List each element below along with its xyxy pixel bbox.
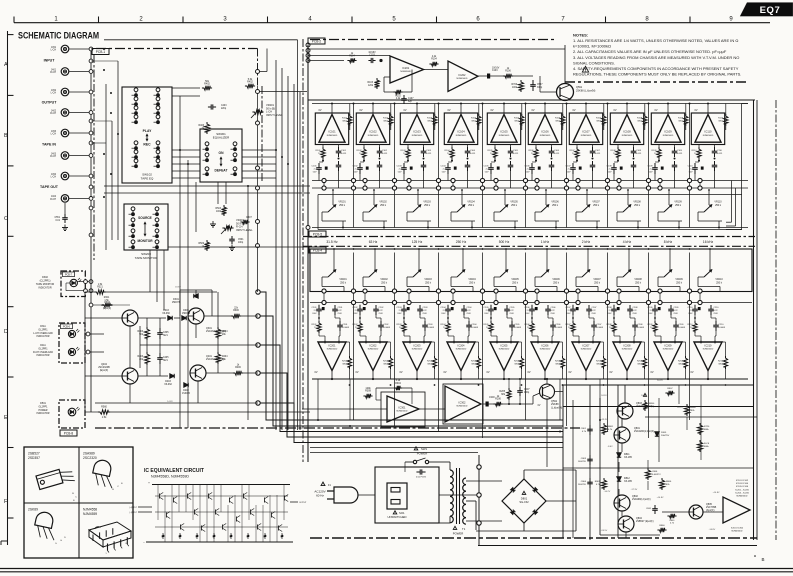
svg-text:EQ7: EQ7 <box>760 5 781 16</box>
svg-text:C551: C551 <box>55 217 61 219</box>
svg-text:NJM4560D: NJM4560D <box>412 135 423 137</box>
svg-text:C501: C501 <box>238 239 244 241</box>
svg-text:R110: R110 <box>718 118 724 120</box>
svg-text:0V: 0V <box>527 371 530 374</box>
svg-text:/50V: /50V <box>592 313 597 315</box>
svg-text:-24.5V: -24.5V <box>601 530 608 532</box>
svg-text:R101: R101 <box>316 150 322 152</box>
svg-text:C201: C201 <box>343 324 349 326</box>
svg-text:IC206: IC206 <box>542 343 549 347</box>
svg-text:1.5k: 1.5k <box>102 416 107 419</box>
svg-text:68k: 68k <box>501 394 506 396</box>
svg-text:6: 6 <box>476 17 480 23</box>
svg-text:J404: J404 <box>51 196 57 198</box>
svg-text:NJM4560D: NJM4560D <box>412 349 423 351</box>
svg-text:C101: C101 <box>341 150 347 152</box>
svg-text:/50V: /50V <box>674 313 679 315</box>
svg-text:R110: R110 <box>692 150 698 152</box>
svg-text:C108: C108 <box>607 166 613 168</box>
svg-text:/50V: /50V <box>338 313 343 315</box>
svg-text:NJM4560D: NJM4560D <box>368 135 379 137</box>
svg-text:NOTES:: NOTES: <box>573 33 588 38</box>
svg-text:250 k: 250 k <box>340 281 347 284</box>
svg-text:R205: R205 <box>514 361 520 363</box>
svg-text:250 k: 250 k <box>594 281 601 284</box>
svg-text:NJM4560D: NJM4560D <box>737 496 748 498</box>
svg-text:C210: C210 <box>714 307 720 309</box>
svg-text:2SC2320: 2SC2320 <box>83 456 97 460</box>
svg-text:E: E <box>121 483 123 485</box>
svg-text:0V: 0V <box>694 109 697 112</box>
svg-text:L-CH: L-CH <box>51 134 57 136</box>
svg-text:0.015: 0.015 <box>717 153 723 155</box>
svg-text:R103: R103 <box>427 118 433 120</box>
svg-text:R807: R807 <box>667 388 673 390</box>
svg-text:4.7k: 4.7k <box>608 429 613 431</box>
svg-text:R103: R103 <box>401 150 407 152</box>
svg-text:R309: R309 <box>365 390 371 393</box>
svg-text:680k: 680k <box>704 446 710 448</box>
svg-text:ON: ON <box>219 151 225 155</box>
svg-text:50V: 50V <box>398 172 402 174</box>
svg-text:R203: R203 <box>427 361 433 363</box>
svg-text:(−)INPUT: (−)INPUT <box>129 512 138 514</box>
svg-text:R303: R303 <box>138 331 144 333</box>
svg-text:R104: R104 <box>445 150 451 152</box>
svg-text:R205: R205 <box>499 391 505 393</box>
svg-text:D801: D801 <box>521 497 528 501</box>
svg-text:R210: R210 <box>688 324 694 326</box>
svg-text:0.22: 0.22 <box>510 310 515 312</box>
svg-text:E: E <box>73 500 75 502</box>
svg-text:R867: R867 <box>691 407 697 409</box>
svg-text:0V: 0V <box>318 109 321 112</box>
svg-text:R103: R103 <box>368 82 374 84</box>
svg-text:0V: 0V <box>609 371 612 374</box>
svg-text:SIGNAL CONDITIONS.: SIGNAL CONDITIONS. <box>573 60 615 65</box>
svg-text:0V: 0V <box>486 371 489 374</box>
svg-text:0.22: 0.22 <box>338 310 343 312</box>
svg-text:OUTPUT: OUTPUT <box>299 502 307 504</box>
svg-text:50V: 50V <box>485 172 489 174</box>
svg-text:IC205: IC205 <box>501 343 508 347</box>
svg-text:16.5V: 16.5V <box>641 395 647 397</box>
svg-text:R321: R321 <box>97 287 103 289</box>
svg-text:SCHEMATIC DIAGRAM: SCHEMATIC DIAGRAM <box>18 31 99 41</box>
svg-text:NJM4560D: NJM4560D <box>499 349 510 351</box>
svg-text:R-CH: R-CH <box>50 199 56 201</box>
svg-text:0V: 0V <box>538 405 541 407</box>
svg-text:NJM4560D: NJM4560D <box>499 135 510 137</box>
svg-text:/50V: /50V <box>467 313 472 315</box>
svg-text:R105: R105 <box>488 150 494 152</box>
svg-text:R503: R503 <box>216 208 222 210</box>
svg-text:82p: 82p <box>408 101 413 103</box>
svg-text:DEFEAT: DEFEAT <box>215 169 228 173</box>
svg-text:R306: R306 <box>233 310 239 312</box>
svg-text:2SB527: 2SB527 <box>28 452 40 456</box>
svg-text:2SB527 (E)or(F): 2SB527 (E)or(F) <box>636 520 654 523</box>
svg-text:R204: R204 <box>471 361 477 363</box>
svg-text:−: − <box>143 540 145 544</box>
svg-text:3: 3 <box>223 17 227 23</box>
svg-text:10/16V: 10/16V <box>492 67 500 69</box>
svg-text:PCB-1: PCB-1 <box>96 50 106 54</box>
svg-text:D305: D305 <box>183 310 189 312</box>
svg-text:0V: 0V <box>572 109 575 112</box>
svg-text:-8.6V: -8.6V <box>607 446 613 448</box>
svg-text:R106: R106 <box>529 150 535 152</box>
svg-text:R207: R207 <box>566 324 572 326</box>
svg-text:0.015: 0.015 <box>513 153 519 155</box>
svg-text:18.8V: 18.8V <box>175 287 181 289</box>
svg-text:R209: R209 <box>648 324 654 326</box>
svg-text:C203: C203 <box>397 307 403 309</box>
svg-text:XZ-060: XZ-060 <box>162 313 170 315</box>
svg-text:C202: C202 <box>353 307 359 309</box>
svg-text:2: 2 <box>139 17 143 23</box>
svg-text:50V: 50V <box>649 172 653 174</box>
svg-text:250 k: 250 k <box>716 281 723 284</box>
svg-text:T1: T1 <box>462 527 466 531</box>
svg-text:PCB-8: PCB-8 <box>64 432 74 436</box>
svg-text:!: ! <box>585 67 586 72</box>
svg-text:2SA999(1,b)or(F): 2SA999(1,b)or(F) <box>632 498 651 501</box>
svg-text:IC202: IC202 <box>370 343 377 347</box>
svg-text:-14.8V: -14.8V <box>709 529 716 531</box>
svg-text:50k: 50k <box>222 359 227 361</box>
svg-text:/50V: /50V <box>510 313 515 315</box>
svg-text:R404: R404 <box>222 356 228 358</box>
svg-text:R201: R201 <box>342 361 348 363</box>
svg-text:0.015: 0.015 <box>636 153 642 155</box>
svg-text:0.0068: 0.0068 <box>638 327 645 329</box>
svg-text:IC103: IC103 <box>413 130 421 134</box>
svg-text:16.2V: 16.2V <box>677 407 683 409</box>
svg-text:C205: C205 <box>510 307 516 309</box>
svg-text:IC204 - IC206: IC204 - IC206 <box>735 492 749 494</box>
svg-text:R-CH: R-CH <box>50 113 56 115</box>
svg-text:250 k: 250 k <box>593 204 600 207</box>
svg-text:R107: R107 <box>570 150 576 152</box>
svg-text:IC301: IC301 <box>399 406 406 410</box>
svg-text:100k: 100k <box>216 211 222 213</box>
svg-text:IC203: IC203 <box>414 343 421 347</box>
svg-text:R801: R801 <box>608 426 614 428</box>
svg-text:250 Hz: 250 Hz <box>456 240 467 244</box>
svg-text:XZ-185: XZ-185 <box>624 480 633 483</box>
svg-text:50V: 50V <box>442 172 446 174</box>
svg-text:/50V: /50V <box>484 313 489 315</box>
svg-text:PCB-7: PCB-7 <box>65 274 73 277</box>
svg-text:R210: R210 <box>718 361 724 363</box>
svg-text:E: E <box>4 415 8 421</box>
svg-text:NJM4559: NJM4559 <box>83 512 97 516</box>
svg-text:NJM4560D: NJM4560D <box>456 135 467 137</box>
svg-text:(A)or(F): (A)or(F) <box>706 509 715 512</box>
svg-text:0.015: 0.015 <box>470 153 476 155</box>
svg-text:C207: C207 <box>597 324 603 326</box>
svg-text:0.015: 0.015 <box>341 153 347 155</box>
svg-text:50V: 50V <box>526 172 530 174</box>
svg-text:J403: J403 <box>51 153 57 155</box>
svg-text:15D076: 15D076 <box>172 301 181 304</box>
svg-text:8 kHz: 8 kHz <box>664 240 673 244</box>
svg-text:0V: 0V <box>403 109 406 112</box>
svg-text:C203: C203 <box>428 324 434 326</box>
svg-text:5: 5 <box>392 17 396 23</box>
svg-text:C204: C204 <box>472 324 478 326</box>
svg-text:R101: R101 <box>342 118 348 120</box>
svg-text:0V: 0V <box>531 109 534 112</box>
svg-text:C209: C209 <box>674 307 680 309</box>
svg-text:SOURCE: SOURCE <box>138 216 152 220</box>
svg-text:PCB-4: PCB-4 <box>313 249 323 253</box>
svg-text:C: C <box>75 497 77 499</box>
svg-text:C208: C208 <box>638 324 644 326</box>
svg-text:1 kHz: 1 kHz <box>541 240 550 244</box>
svg-text:2SK89: 2SK89 <box>28 508 38 512</box>
svg-text:G: G <box>60 540 62 542</box>
svg-text:C204: C204 <box>467 307 473 309</box>
svg-text:INDICATOR: INDICATOR <box>38 287 51 290</box>
svg-text:IC EQUIVALENT CIRCUIT: IC EQUIVALENT CIRCUIT <box>144 468 204 474</box>
svg-text:2 kHz: 2 kHz <box>582 240 591 244</box>
svg-text:C202: C202 <box>384 324 390 326</box>
svg-text:NJM4560D: NJM4560D <box>397 411 408 413</box>
svg-text:24.5V: 24.5V <box>601 395 607 397</box>
svg-text:R304: R304 <box>395 383 401 385</box>
svg-text:200/25V: 200/25V <box>661 435 670 437</box>
svg-text:C203: C203 <box>423 307 429 309</box>
svg-text:16.2V: 16.2V <box>657 380 663 382</box>
svg-text:0V: 0V <box>568 371 571 374</box>
svg-text:UNSWITCHED: UNSWITCHED <box>388 515 407 519</box>
svg-text:14.8V: 14.8V <box>167 401 173 403</box>
svg-text:0.0068: 0.0068 <box>679 327 686 329</box>
svg-text:0.01: 0.01 <box>56 220 61 222</box>
svg-text:C205: C205 <box>484 307 490 309</box>
svg-text:D303: D303 <box>163 310 169 312</box>
svg-text:NJM4560D: NJM4560D <box>703 349 714 351</box>
svg-text:250 k: 250 k <box>380 204 387 207</box>
svg-text:INPUT LEVEL: INPUT LEVEL <box>266 113 283 117</box>
svg-text:REGULATIONS, THESE COMPONENTS: REGULATIONS, THESE COMPONENTS MUST ONLY … <box>573 72 741 77</box>
svg-text:NJM4560D: NJM4560D <box>622 349 633 351</box>
svg-text:INDICATOR: INDICATOR <box>37 335 50 338</box>
svg-text:C110: C110 <box>717 150 723 152</box>
svg-text:C106: C106 <box>525 166 531 168</box>
svg-text:R-C6: R-C6 <box>704 443 710 445</box>
svg-text:IC208: IC208 <box>624 343 631 347</box>
svg-text:C: C <box>117 486 119 488</box>
svg-text:C210: C210 <box>719 324 725 326</box>
svg-text:C102: C102 <box>353 166 359 168</box>
svg-text:0.002P.V: 0.002P.V <box>652 474 661 476</box>
svg-text:POWER: POWER <box>453 532 464 536</box>
svg-text:(L,b)or(M): (L,b)or(M) <box>551 406 562 409</box>
svg-text:NJM4560D: NJM4560D <box>732 531 743 533</box>
svg-text:0.22: 0.22 <box>592 310 597 312</box>
svg-text:R560: R560 <box>101 406 107 409</box>
svg-text:0.015: 0.015 <box>595 153 601 155</box>
svg-text:4: 4 <box>308 17 312 23</box>
svg-text:/50V: /50V <box>607 313 612 315</box>
svg-text:R850: R850 <box>649 403 655 405</box>
svg-text:C104: C104 <box>441 166 447 168</box>
svg-text:NJM4560D: NJM4560D <box>400 71 411 73</box>
svg-text:R507: R507 <box>246 217 252 219</box>
svg-text:0V: 0V <box>490 109 493 112</box>
svg-text:/50V: /50V <box>423 313 428 315</box>
svg-text:(E)or(F): (E)or(F) <box>103 307 112 310</box>
svg-text:-16.2V: -16.2V <box>604 491 611 493</box>
svg-text:C206: C206 <box>556 324 562 326</box>
svg-text:0.22: 0.22 <box>633 310 638 312</box>
svg-text:R202: R202 <box>383 361 389 363</box>
svg-text:D402: D402 <box>183 390 189 392</box>
svg-text:60 Hz: 60 Hz <box>316 494 324 498</box>
svg-text:NJM4560D: NJM4560D <box>456 349 467 351</box>
svg-text:MONITOR: MONITOR <box>138 239 154 243</box>
svg-text:0.0068: 0.0068 <box>343 327 350 329</box>
svg-text:50V: 50V <box>689 172 693 174</box>
svg-text:C201: C201 <box>338 307 344 309</box>
svg-text:C205: C205 <box>515 324 521 326</box>
svg-text:1.5k: 1.5k <box>98 284 103 286</box>
svg-text:C303: C303 <box>489 397 495 399</box>
svg-text:0.015: 0.015 <box>677 153 683 155</box>
svg-text:C102: C102 <box>382 150 388 152</box>
svg-text:R206: R206 <box>495 398 501 401</box>
svg-text:POWER: POWER <box>417 452 428 456</box>
svg-text:NJM4560D: NJM4560D <box>703 135 714 137</box>
svg-text:R108: R108 <box>611 150 617 152</box>
svg-text:0.22: 0.22 <box>423 310 428 312</box>
svg-text:250 k: 250 k <box>634 204 641 207</box>
svg-text:/50V: /50V <box>714 313 719 315</box>
svg-text:C803: C803 <box>581 458 587 460</box>
svg-text:C861: C861 <box>646 508 652 510</box>
svg-text:100/25V: 100/25V <box>578 484 587 486</box>
svg-text:PCB-6: PCB-6 <box>63 326 71 329</box>
svg-text:4. SAFETY-REQUIREME: 4. SAFETY-REQUIREMENTS COMPONENTS IN ACC… <box>573 66 739 71</box>
svg-text:IC108: IC108 <box>623 130 631 134</box>
svg-text:IC204: IC204 <box>458 343 465 347</box>
svg-text:INPUT: INPUT <box>44 59 56 63</box>
svg-text:0.0068: 0.0068 <box>428 327 435 329</box>
svg-text:0.015: 0.015 <box>554 153 560 155</box>
svg-text:D403: D403 <box>165 381 171 383</box>
svg-text:TAPE MONITOR: TAPE MONITOR <box>135 256 158 260</box>
svg-text:IC201: IC201 <box>402 66 409 70</box>
svg-text:C208: C208 <box>607 307 613 309</box>
svg-text:NJM4558D, NJM4559D: NJM4558D, NJM4559D <box>151 475 189 479</box>
svg-text:R321: R321 <box>104 297 110 299</box>
svg-text:A: A <box>4 62 8 68</box>
svg-text:0.0068: 0.0068 <box>556 327 563 329</box>
svg-text:C403: C403 <box>221 105 227 107</box>
svg-text:0V: 0V <box>355 371 358 374</box>
svg-text:R-CH: R-CH <box>50 156 56 158</box>
svg-text:C209: C209 <box>648 307 654 309</box>
svg-text:R806: R806 <box>666 481 672 483</box>
svg-text:B: B <box>112 489 114 491</box>
svg-text:0V: 0V <box>654 109 657 112</box>
svg-text:INDICATOR: INDICATOR <box>37 354 50 357</box>
svg-text:C103: C103 <box>369 55 375 57</box>
svg-text:SI21: SI21 <box>163 335 168 337</box>
svg-text:2SC2200(1,b)or(F): 2SC2200(1,b)or(F) <box>634 430 654 433</box>
svg-text:C103: C103 <box>492 70 498 72</box>
svg-text:C201: C201 <box>312 307 318 309</box>
svg-text:R109: R109 <box>652 150 658 152</box>
svg-text:250 k: 250 k <box>553 281 560 284</box>
svg-text:IC202: IC202 <box>459 73 466 77</box>
svg-text:+14.8V: +14.8V <box>713 492 721 494</box>
svg-text:R452: R452 <box>247 81 253 84</box>
svg-text:4.7k: 4.7k <box>670 522 675 524</box>
svg-text:NJM4560D: NJM4560D <box>368 349 379 351</box>
svg-text:k=1000Ω, M=1000kΩ: k=1000Ω, M=1000kΩ <box>573 44 611 49</box>
svg-text:8: 8 <box>125 543 126 545</box>
svg-text:R204: R204 <box>441 324 447 326</box>
svg-text:100/25V: 100/25V <box>578 461 587 463</box>
svg-text:250 k: 250 k <box>676 281 683 284</box>
svg-text:R104: R104 <box>431 59 437 61</box>
svg-text:TAPE IN: TAPE IN <box>42 143 56 147</box>
svg-text:/50V: /50V <box>566 313 571 315</box>
svg-text:125 Hz: 125 Hz <box>412 240 423 244</box>
svg-text:INDICATOR: INDICATOR <box>37 412 50 415</box>
svg-text:5.6k: 5.6k <box>248 78 253 81</box>
svg-text:D: D <box>64 537 66 539</box>
svg-text:0.22: 0.22 <box>674 310 679 312</box>
svg-text:50V: 50V <box>313 172 317 174</box>
svg-text:C105: C105 <box>513 150 519 152</box>
svg-text:50V: 50V <box>567 172 571 174</box>
svg-text:D: D <box>4 329 8 335</box>
svg-text:250 k: 250 k <box>675 204 682 207</box>
svg-text:250 k: 250 k <box>339 204 346 207</box>
svg-text:/50V: /50V <box>353 313 358 315</box>
svg-text:IC106: IC106 <box>541 130 549 134</box>
svg-text:C206: C206 <box>551 307 557 309</box>
svg-text:7: 7 <box>561 17 565 23</box>
svg-text:R102: R102 <box>395 96 401 98</box>
svg-text:1: 1 <box>54 17 58 23</box>
svg-text:IC101: IC101 <box>328 130 336 134</box>
svg-text:1: 1 <box>105 553 106 555</box>
svg-text:63 Hz: 63 Hz <box>369 240 378 244</box>
svg-text:NJM4558: NJM4558 <box>83 508 97 512</box>
svg-text:220p: 220p <box>221 108 227 110</box>
svg-text:C106: C106 <box>554 150 560 152</box>
svg-text:R102: R102 <box>383 118 389 120</box>
svg-text:0.0068: 0.0068 <box>515 327 522 329</box>
svg-text:0.22: 0.22 <box>714 310 719 312</box>
svg-text:R107: R107 <box>596 118 602 120</box>
svg-text:R106: R106 <box>505 71 511 73</box>
svg-text:IC104: IC104 <box>457 130 465 134</box>
svg-text:/50V: /50V <box>525 313 530 315</box>
svg-text:C207: C207 <box>592 307 598 309</box>
svg-text:IC209: IC209 <box>665 343 672 347</box>
svg-text:(E)or(F): (E)or(F) <box>100 369 109 372</box>
svg-text:8: 8 <box>645 17 649 23</box>
svg-text:/50V: /50V <box>648 313 653 315</box>
svg-text:0V: 0V <box>314 371 317 374</box>
